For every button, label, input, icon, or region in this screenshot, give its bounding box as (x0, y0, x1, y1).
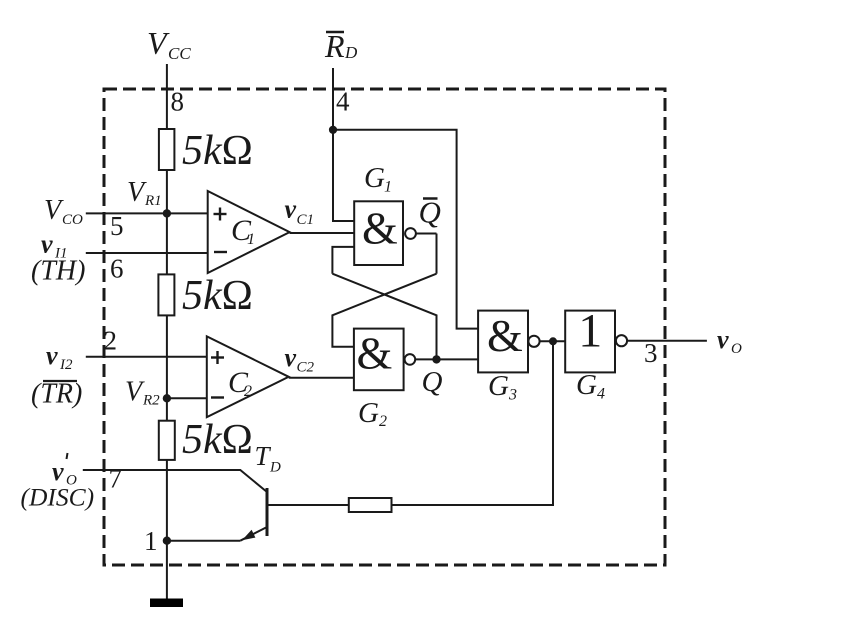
wire G1 input3 rail (332, 247, 354, 274)
svg-text:(DISC): (DISC) (21, 483, 95, 512)
svg-text:R1: R1 (144, 193, 162, 209)
svg-text:V: V (125, 377, 145, 408)
svg-text:R: R (324, 28, 345, 64)
ground symbol (150, 599, 183, 608)
svg-text:5kΩ: 5kΩ (182, 417, 253, 463)
svg-text:1: 1 (144, 526, 158, 556)
gate G4 (inverter) box (565, 311, 615, 373)
svg-text:R2: R2 (142, 393, 160, 409)
label vI2 (46, 341, 73, 373)
svg-text:v: v (285, 195, 297, 224)
label Vcc (147, 25, 191, 63)
wire C1 output to G1 (290, 232, 355, 234)
label G3 (488, 370, 517, 404)
label VR1 (127, 177, 162, 209)
label vC1 (285, 195, 315, 229)
wire rail to ground (166, 541, 168, 600)
svg-text:(TH): (TH) (31, 256, 85, 287)
svg-text:3: 3 (644, 338, 658, 368)
gate G2 output bubble (405, 354, 416, 365)
svg-text:&: & (357, 328, 393, 379)
svg-text:CC: CC (168, 44, 191, 63)
label G1 (364, 162, 392, 196)
comparator C1 plus (214, 208, 227, 221)
node pin 4 (330, 127, 336, 133)
wire vI2 / pin 2 (86, 356, 207, 358)
svg-text:G: G (488, 370, 509, 402)
svg-text:2: 2 (104, 326, 118, 356)
wire C2 output to G2 (289, 377, 354, 379)
svg-text:7: 7 (109, 464, 123, 494)
svg-text:8: 8 (171, 87, 185, 117)
label vO (717, 325, 742, 357)
node G3 output (550, 338, 556, 344)
wire rail R3 to pin1 node (166, 460, 168, 541)
svg-text:2: 2 (379, 413, 387, 430)
svg-text:G: G (364, 162, 385, 194)
wire cross diagonal Q to G1 (332, 274, 436, 360)
svg-text:G: G (576, 369, 597, 401)
svg-text:5kΩ: 5kΩ (182, 273, 253, 319)
transistor TD base bar (266, 488, 269, 536)
wire Qbar from G1 bubble (416, 233, 437, 235)
dashed IC boundary box (104, 89, 665, 565)
comparator C2 (207, 336, 289, 417)
svg-text:V: V (127, 177, 147, 208)
comparator C2 minus (211, 396, 224, 398)
svg-text:V: V (44, 195, 64, 226)
NAND gate G1 box (354, 201, 403, 265)
svg-text:CO: CO (62, 212, 83, 228)
svg-text:&: & (362, 203, 398, 254)
transistor TD emitter arrow (242, 530, 255, 540)
svg-text:5kΩ: 5kΩ (182, 128, 253, 174)
resistor R2 5k (158, 274, 174, 315)
svg-text:(TR): (TR) (31, 379, 82, 410)
label G4 (576, 369, 605, 403)
NAND gate G2 box (354, 329, 404, 391)
svg-text:2: 2 (244, 383, 252, 400)
svg-text:6: 6 (110, 253, 124, 283)
svg-text:&: & (487, 310, 523, 361)
comparator C1 minus (214, 251, 227, 253)
svg-text:Q: Q (422, 366, 443, 398)
label G2 (358, 397, 387, 430)
svg-text:C2: C2 (297, 360, 315, 376)
comparator C2 plus (211, 351, 224, 364)
gate G1 output bubble (405, 228, 416, 239)
resistor base of TD (349, 498, 392, 512)
wire pin4 to G3 input 1 (333, 130, 478, 329)
label vC2 (285, 343, 315, 376)
label C1 (231, 214, 255, 248)
svg-text:3: 3 (508, 387, 517, 404)
label C2 (228, 366, 252, 400)
label Vco (44, 195, 83, 228)
wire rail R2 to R3 (166, 315, 168, 420)
svg-text:T: T (255, 441, 272, 471)
label TD (255, 441, 282, 476)
svg-text:G: G (358, 397, 379, 429)
wire VR2 to C2 minus input (167, 397, 207, 399)
NAND gate G3 box (478, 311, 528, 373)
svg-text:O: O (731, 341, 742, 357)
wire rail R1 to R2 (166, 170, 168, 274)
gate G4 output bubble (616, 335, 627, 346)
node pin 1 (164, 538, 170, 544)
node Q (433, 356, 439, 362)
wire pin4 to G1 input 1 (333, 130, 354, 221)
svg-text:v: v (285, 343, 297, 372)
wire Q output to G3 (415, 358, 478, 360)
svg-text:1: 1 (384, 179, 392, 196)
svg-text:C1: C1 (297, 212, 315, 228)
node VR2 (164, 395, 170, 401)
wire emitter to pin1 node (167, 540, 240, 542)
label RD with overbar (324, 28, 358, 64)
label vO' (52, 457, 77, 489)
resistor R3 5k (159, 421, 175, 460)
gate G3 output bubble (528, 336, 539, 347)
svg-text:v: v (46, 341, 58, 370)
svg-text:v: v (717, 325, 729, 354)
wire output pin 3 (627, 340, 707, 342)
wire Vcc lead (166, 64, 168, 129)
svg-text:D: D (269, 460, 281, 476)
label VR2 (125, 377, 160, 409)
svg-text:v: v (41, 230, 53, 259)
svg-text:4: 4 (597, 386, 605, 403)
wire Vco / pin 5 (86, 212, 208, 214)
resistor R1 5k (159, 129, 175, 170)
wire pin 7 (DISC) (83, 470, 267, 492)
wire base of TD to resistor (267, 504, 349, 506)
label vI1 (41, 230, 68, 262)
transistor TD emitter (240, 527, 267, 541)
svg-text:I2: I2 (59, 357, 73, 373)
wire RD lead (332, 68, 334, 129)
wire feedback G3 node down to base resistor (392, 341, 554, 505)
wire Qbar right rail down (436, 234, 438, 274)
svg-text:5: 5 (110, 211, 124, 241)
prime tick of vO' (67, 453, 68, 459)
node VR1 (164, 210, 170, 216)
svg-text:D: D (344, 43, 358, 62)
wire G3 to G4 (540, 340, 566, 342)
wire cross diagonal Qbar to G2 (332, 274, 436, 347)
svg-text:4: 4 (336, 87, 350, 117)
svg-text:1: 1 (578, 305, 602, 358)
svg-text:1: 1 (247, 231, 255, 248)
comparator C1 (208, 191, 290, 273)
wire vI1 / pin 6 (86, 252, 208, 254)
